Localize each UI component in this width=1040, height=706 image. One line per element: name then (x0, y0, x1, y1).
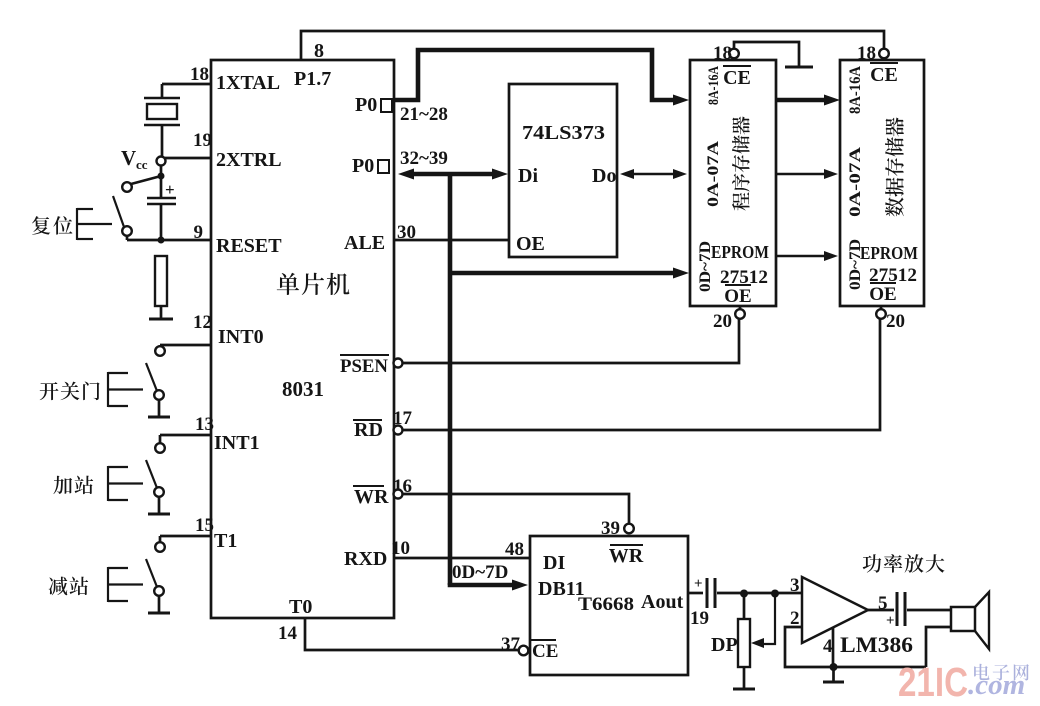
svg-text:48: 48 (505, 539, 524, 560)
svg-text:CE: CE (723, 67, 751, 89)
svg-text:5: 5 (878, 593, 888, 614)
svg-text:18: 18 (857, 43, 876, 64)
svg-text:cc: cc (136, 157, 148, 172)
svg-text:74LS373: 74LS373 (522, 122, 605, 144)
svg-text:T6668: T6668 (578, 594, 634, 615)
svg-text:PSEN: PSEN (340, 356, 388, 377)
svg-text:DP: DP (711, 634, 738, 656)
svg-text:20: 20 (886, 311, 905, 332)
svg-text:INT0: INT0 (218, 326, 264, 348)
svg-text:CE: CE (532, 641, 558, 662)
svg-text:+: + (694, 576, 703, 592)
svg-text:P1.7: P1.7 (294, 68, 331, 90)
svg-text:.com: .com (968, 669, 1025, 701)
svg-text:4: 4 (823, 636, 833, 657)
svg-text:0A-07A: 0A-07A (705, 140, 722, 207)
svg-text:Aout: Aout (641, 591, 684, 613)
svg-text:EPROM: EPROM (860, 243, 918, 263)
svg-text:RXD: RXD (344, 548, 387, 570)
svg-text:15: 15 (195, 515, 214, 536)
svg-text:14: 14 (278, 623, 298, 644)
svg-text:T0: T0 (289, 596, 312, 618)
svg-text:12: 12 (193, 312, 212, 333)
svg-text:OE: OE (724, 286, 751, 307)
svg-text:P0: P0 (352, 155, 374, 177)
svg-text:21~28: 21~28 (400, 104, 448, 125)
svg-text:+: + (886, 613, 895, 629)
svg-text:T1: T1 (214, 530, 237, 552)
svg-text:OE: OE (516, 233, 545, 255)
svg-text:OE: OE (869, 284, 896, 305)
svg-text:8031: 8031 (282, 377, 324, 401)
svg-text:ALE: ALE (344, 232, 385, 254)
svg-text:Di: Di (518, 165, 538, 187)
svg-text:Do: Do (592, 165, 616, 187)
svg-text:+: + (165, 180, 175, 199)
svg-text:2XTRL: 2XTRL (216, 149, 282, 171)
svg-text:INT1: INT1 (214, 432, 260, 454)
svg-text:18: 18 (713, 43, 732, 64)
svg-text:V: V (121, 146, 136, 170)
svg-text:CE: CE (870, 64, 898, 86)
svg-text:WR: WR (354, 486, 389, 508)
svg-text:RESET: RESET (216, 235, 282, 257)
svg-text:8A-16A: 8A-16A (706, 66, 722, 105)
svg-text:DI: DI (543, 552, 565, 574)
svg-text:19: 19 (193, 130, 212, 151)
svg-text:1XTAL: 1XTAL (216, 72, 280, 94)
svg-text:18: 18 (190, 64, 209, 85)
svg-text:20: 20 (713, 311, 732, 332)
svg-text:LM386: LM386 (840, 632, 913, 657)
svg-text:P0: P0 (355, 94, 377, 116)
svg-text:RD: RD (354, 419, 383, 441)
svg-text:32~39: 32~39 (400, 148, 448, 169)
svg-text:9: 9 (194, 222, 204, 243)
svg-text:0D~7D: 0D~7D (452, 562, 508, 583)
svg-text:WR: WR (609, 545, 644, 567)
svg-text:37: 37 (501, 634, 521, 655)
svg-text:21IC: 21IC (898, 659, 968, 705)
svg-text:10: 10 (391, 538, 410, 559)
svg-text:19: 19 (690, 608, 709, 629)
svg-text:8A-16A: 8A-16A (847, 66, 864, 114)
svg-text:13: 13 (195, 414, 214, 435)
svg-text:0A-07A: 0A-07A (847, 146, 864, 217)
svg-text:8: 8 (314, 40, 324, 62)
svg-text:3: 3 (790, 575, 800, 596)
svg-text:EPROM: EPROM (711, 242, 769, 262)
